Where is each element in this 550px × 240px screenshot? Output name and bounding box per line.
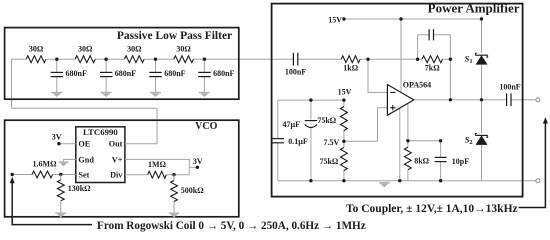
label 130kΩ	[68, 184, 91, 193]
wire V+ to 3V loop	[125, 159, 189, 174]
node VCO input	[11, 173, 14, 176]
resistor 75kΩ lower	[341, 148, 348, 171]
terminal output return	[536, 179, 540, 183]
wire 7.5V node to op-amp non-inverting input	[344, 108, 388, 142]
wire feedback loop left leg	[417, 35, 419, 59]
svg-text:From Rogowski Coil 0 → 5V, 0 →: From Rogowski Coil 0 → 5V, 0 → 250A, 0.6…	[97, 220, 366, 232]
resistor 75kΩ upper	[341, 107, 348, 131]
label 47µF	[283, 120, 301, 129]
svg-text:47µF: 47µF	[283, 120, 301, 129]
wire node A to 7kΩ	[368, 58, 422, 60]
terminal output signal	[536, 98, 540, 102]
svg-text:680nF: 680nF	[115, 69, 136, 78]
label 75kΩ lower	[319, 157, 338, 166]
resistor 8kΩ	[405, 147, 412, 170]
svg-text:To Coupler, ± 12V,± 1A,10→13kH: To Coupler, ± 12V,± 1A,10→13kHz	[346, 203, 518, 215]
capacitor 0.1µF	[272, 139, 284, 143]
resistor 30Ω #1	[26, 56, 46, 63]
node feedback at output	[449, 98, 452, 101]
svg-text:15V: 15V	[338, 87, 352, 96]
svg-text:Power Amplifier: Power Amplifier	[428, 1, 520, 16]
svg-text:V+: V+	[112, 155, 123, 164]
label 1kΩ	[343, 64, 358, 73]
label 680nF #3	[164, 69, 185, 78]
node feedback left	[416, 58, 419, 61]
svg-text:Gnd: Gnd	[78, 156, 94, 165]
wire 47µF branch	[310, 100, 312, 181]
wire 130kΩ branch	[60, 175, 62, 213]
label 3V at V+	[193, 157, 203, 166]
svg-text:10pF: 10pF	[452, 157, 469, 166]
capacitor 680nF #2	[100, 72, 112, 76]
capacitor 680nF #4	[198, 72, 210, 76]
label 100nF output	[499, 82, 520, 91]
label 7kΩ	[425, 63, 440, 72]
node S1 feed corner	[480, 17, 483, 20]
label 30Ω #4	[176, 45, 191, 54]
node rail 47µF	[309, 179, 312, 182]
svg-text:75kΩ: 75kΩ	[319, 157, 338, 166]
svg-text:S2: S2	[465, 135, 473, 147]
wire shunt cap branch 1	[56, 59, 58, 92]
wire S1 anode to output node	[481, 65, 483, 100]
label 3V at OE	[52, 133, 62, 142]
wire feedback right leg down to output	[449, 35, 451, 100]
wire bottom ground rail	[278, 180, 536, 182]
label 500kΩ	[181, 186, 204, 195]
wire 1kΩ to node A (inverting input node)	[360, 58, 368, 60]
node filter junction 1	[55, 58, 58, 61]
label 680nF #1	[66, 69, 87, 78]
wire shunt cap branch 2	[105, 59, 107, 92]
svg-text:30Ω: 30Ω	[127, 45, 142, 54]
wire output node down to S2 cathode	[481, 100, 483, 133]
node rail 75kΩ	[342, 179, 345, 182]
svg-text:7.5V: 7.5V	[324, 138, 340, 147]
VCO block box	[5, 120, 239, 217]
label 75kΩ upper	[317, 116, 336, 125]
wire 15V rail down to op-amp V+ pin	[400, 19, 402, 93]
label 30Ω #3	[127, 45, 142, 54]
diode S1 schottky	[465, 53, 488, 65]
wire 8kΩ node to 10pF node	[408, 140, 441, 142]
capacitor 100nF input	[293, 53, 297, 66]
ground of 130kΩ	[55, 212, 66, 217]
svg-text:30Ω: 30Ω	[78, 45, 93, 54]
wire shunt cap branch 3	[155, 59, 157, 92]
label 15V bias	[338, 87, 352, 96]
wire Div line	[125, 174, 174, 176]
terminal 3V at OE	[57, 142, 60, 145]
terminal 15V bias	[342, 98, 345, 101]
svg-text:30Ω: 30Ω	[176, 45, 191, 54]
svg-text:3V: 3V	[52, 133, 62, 142]
diode S2 schottky	[465, 134, 488, 147]
wire S2 anode down to bottom rail	[481, 145, 483, 181]
svg-text:100nF: 100nF	[285, 68, 306, 77]
label LTC6990	[83, 127, 118, 137]
wire 0.1µF branch	[277, 100, 279, 181]
pin label OE	[78, 140, 90, 149]
svg-text:Div: Div	[110, 171, 123, 180]
svg-text:1.6MΩ: 1.6MΩ	[33, 159, 58, 168]
svg-text:30Ω: 30Ω	[29, 45, 44, 54]
label 0.1µF	[288, 137, 308, 146]
resistor 30Ω #4	[174, 56, 194, 63]
svg-text:8kΩ: 8kΩ	[414, 156, 429, 165]
label To Coupler	[346, 203, 518, 215]
node A inverting input junction	[366, 58, 369, 61]
label 680nF #2	[115, 69, 136, 78]
resistor 130kΩ	[57, 180, 64, 201]
svg-text:0.1µF: 0.1µF	[288, 137, 308, 146]
svg-text:Out: Out	[109, 140, 123, 149]
label 7.5V	[324, 138, 340, 147]
resistor 1MΩ	[148, 171, 167, 178]
ground of 680nF #4	[199, 92, 210, 97]
label 100nF input	[285, 68, 306, 77]
wire Gnd pin stub	[64, 159, 76, 161]
wire 15V rail down to S1 cathode	[481, 19, 483, 53]
svg-text:500kΩ: 500kΩ	[181, 186, 204, 195]
wire 3V stub	[189, 166, 196, 168]
svg-text:680nF: 680nF	[213, 69, 234, 78]
capacitor 680nF #3	[149, 72, 161, 76]
wire 75kΩ divider branch	[343, 100, 345, 181]
wire 500kΩ branch	[173, 175, 175, 213]
resistor 1kΩ	[341, 56, 360, 63]
svg-text:15V: 15V	[328, 16, 342, 25]
svg-text:3V: 3V	[193, 157, 203, 166]
node filter junction 4	[203, 58, 206, 61]
wire op-amp sense pin to 8kΩ	[407, 103, 409, 180]
node filter junction 3	[154, 58, 157, 61]
wire op-amp output line	[414, 99, 507, 101]
title Power Amplifier	[428, 1, 520, 16]
svg-text:130kΩ: 130kΩ	[68, 184, 91, 193]
ground of 680nF #3	[150, 92, 161, 97]
ground of 680nF #2	[101, 92, 112, 97]
wire Out pin	[125, 143, 127, 145]
terminal 3V at V+	[196, 166, 199, 169]
title VCO	[195, 121, 217, 132]
node filter junction 2	[104, 58, 107, 61]
wire 100nF to 1kΩ	[298, 58, 341, 60]
wire op-amp ground pin	[399, 108, 401, 181]
capacitor feedback (top of 7kΩ)	[429, 29, 433, 40]
title Passive Low Pass Filter	[117, 30, 232, 42]
svg-text:680nF: 680nF	[66, 69, 87, 78]
label 680nF #4	[213, 69, 234, 78]
pin label Out	[109, 140, 123, 149]
label 1MΩ	[148, 160, 167, 169]
wire filter output to 100nF input cap	[204, 58, 293, 60]
wire 3V to OE pin	[59, 143, 76, 145]
svg-text:OPA564: OPA564	[403, 81, 431, 90]
capacitor 47µF	[305, 121, 317, 128]
pin label Set	[78, 171, 89, 180]
node Div junction	[172, 173, 175, 176]
node 10pF top	[439, 139, 442, 142]
filter block box	[5, 28, 239, 100]
node 7.5V	[342, 140, 345, 143]
ground main rail	[379, 182, 390, 187]
power amplifier block box	[272, 4, 523, 197]
svg-text:1MΩ: 1MΩ	[148, 160, 167, 169]
op-amp non-inverting input sign	[390, 105, 395, 110]
svg-text:Passive Low Pass Filter: Passive Low Pass Filter	[117, 30, 232, 42]
svg-text:7kΩ: 7kΩ	[425, 63, 440, 72]
svg-text:VCO: VCO	[195, 121, 217, 132]
node feedback right	[449, 58, 452, 61]
label 8kΩ	[414, 156, 429, 165]
label From Rogowski Coil	[97, 220, 366, 232]
op-amp U1 OPA564 triangle	[387, 85, 413, 116]
pin label Div	[110, 171, 123, 180]
node output S-diode junction	[480, 98, 483, 101]
label 10pF	[452, 157, 469, 166]
terminal 15V supply	[342, 17, 345, 20]
node 8kΩ top	[406, 139, 409, 142]
node rail op-amp gnd	[398, 179, 401, 182]
label 30Ω #1	[29, 45, 44, 54]
IC LTC6990 body	[76, 127, 125, 183]
pin label V+	[112, 155, 123, 164]
svg-text:OE: OE	[78, 140, 90, 149]
wire feedback loop top (cap gaps)	[418, 34, 451, 36]
node 47µF junction	[309, 98, 312, 101]
wire filter ladder node segments	[12, 58, 205, 60]
capacitor 10pF	[435, 157, 447, 161]
op-amp inverting input sign	[390, 91, 395, 93]
node Set junction	[59, 173, 62, 176]
svg-text:1kΩ: 1kΩ	[343, 64, 358, 73]
capacitor 100nF output	[507, 93, 511, 106]
label 15V supply	[328, 16, 342, 25]
resistor 500kΩ	[171, 181, 178, 202]
label 1.6MΩ	[33, 159, 58, 168]
wire VCO Out to filter input (net OSC)	[12, 59, 158, 144]
wire 10pF branch	[440, 141, 442, 181]
wire Set line	[12, 174, 76, 176]
ground at Gnd pin	[59, 161, 69, 166]
svg-text:100nF: 100nF	[499, 82, 520, 91]
resistor 1.6MΩ	[32, 171, 53, 178]
node rail 10pF	[439, 179, 442, 182]
wire node A down to op-amp inverting input	[368, 59, 387, 92]
resistor 30Ω #2	[75, 56, 95, 63]
svg-text:75kΩ: 75kΩ	[317, 116, 336, 125]
label 30Ω #2	[78, 45, 93, 54]
capacitor 680nF #1	[51, 72, 63, 76]
svg-text:LTC6990: LTC6990	[83, 127, 118, 137]
wire 15V bias feed horizontal	[278, 99, 344, 101]
pointer From Rogowski Coil	[10, 177, 92, 225]
ground of 500kΩ	[169, 212, 180, 217]
wire 15V supply rail	[344, 18, 482, 20]
pointer To Coupler	[519, 117, 548, 208]
svg-text:Set: Set	[78, 171, 89, 180]
wire output cap to terminal	[511, 99, 536, 101]
ground of 680nF #1	[51, 92, 62, 97]
pin label Gnd	[78, 156, 94, 165]
wire shunt cap branch 4	[203, 59, 205, 92]
wire 7kΩ to feedback corner	[443, 58, 451, 60]
label OPA564	[403, 81, 431, 90]
resistor 7kΩ	[422, 56, 443, 63]
node V+ feed junction	[399, 17, 402, 20]
resistor 30Ω #3	[125, 56, 145, 63]
svg-text:680nF: 680nF	[164, 69, 185, 78]
svg-text:S1: S1	[465, 53, 473, 65]
